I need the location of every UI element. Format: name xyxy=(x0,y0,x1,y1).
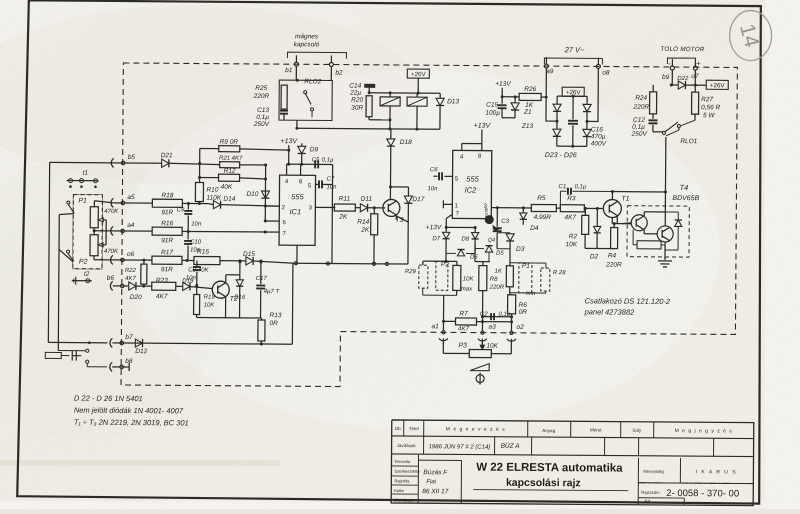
svg-text:Z1: Z1 xyxy=(523,109,532,116)
wire 13v ic2 xyxy=(481,130,483,144)
bracket tolo xyxy=(667,58,695,64)
svg-text:R23: R23 xyxy=(156,277,168,284)
svg-text:Csatlakozó DS 121.120-2: Csatlakozó DS 121.120-2 xyxy=(585,296,671,306)
wire b1 down xyxy=(295,66,297,80)
wire rl02 box bottom xyxy=(296,120,298,128)
svg-text:+26V: +26V xyxy=(411,71,427,78)
svg-text:1K: 1K xyxy=(495,269,503,275)
wire 13v down xyxy=(288,145,290,164)
svg-text:D8: D8 xyxy=(461,236,469,242)
svg-text:4K7: 4K7 xyxy=(458,325,470,332)
svg-text:4,99R: 4,99R xyxy=(534,214,552,221)
svg-text:R20: R20 xyxy=(351,97,363,104)
wire R25-C13 xyxy=(283,108,285,111)
svg-text:250V: 250V xyxy=(253,121,270,128)
pot P2 resistor xyxy=(90,235,98,256)
svg-text:D4: D4 xyxy=(530,225,539,232)
power +26V box top xyxy=(407,69,429,78)
title block rows xyxy=(392,436,754,439)
wire t1 to t4 xyxy=(611,218,613,224)
wire R12 ends xyxy=(200,177,219,179)
svg-text:Tervezte: Tervezte xyxy=(394,459,411,464)
svg-text:b1: b1 xyxy=(285,67,293,74)
svg-text:100µ: 100µ xyxy=(485,110,500,117)
wire c3 down xyxy=(496,241,498,249)
svg-text:P3: P3 xyxy=(458,342,467,349)
wire max bottom xyxy=(456,290,458,295)
wire c5 right down xyxy=(331,165,334,264)
wire b2 down xyxy=(330,66,332,80)
svg-text:86 XII 17: 86 XII 17 xyxy=(422,488,448,495)
resistor 10K max xyxy=(453,265,461,290)
bridge leg left D23 xyxy=(556,96,558,104)
svg-text:D7: D7 xyxy=(432,236,440,242)
svg-text:T₁ ÷ T₃ 2N 2219, 2N 3019, BC: T₁ ÷ T₃ 2N 2219, 2N 3019, BC 301 xyxy=(74,418,189,428)
svg-text:W 22 ELRESTA automatika: W 22 ELRESTA automatika xyxy=(476,462,623,475)
wire d16 top xyxy=(239,262,241,275)
svg-text:M e g j e g y z é s: M e g j e g y z é s xyxy=(675,428,733,434)
wire t3 bottom xyxy=(396,216,408,222)
wire a5 row xyxy=(113,202,152,204)
wire ic1 top rail xyxy=(287,163,333,165)
svg-text:Ellenőrizte: Ellenőrizte xyxy=(394,498,414,503)
resistor t4 internal xyxy=(637,241,661,249)
svg-text:220R: 220R xyxy=(489,285,505,291)
wire b5 row xyxy=(50,161,114,163)
svg-text:D9: D9 xyxy=(310,146,319,153)
svg-text:R11: R11 xyxy=(339,196,351,203)
svg-text:Db: Db xyxy=(395,426,401,431)
bracket 27V xyxy=(544,58,602,64)
svg-text:0R: 0R xyxy=(269,320,278,327)
wire pot tops xyxy=(93,201,95,207)
dashed boundary box xyxy=(121,63,737,389)
row2 right verticals xyxy=(530,455,532,461)
relay RL02 contact box xyxy=(380,97,400,106)
buzas cell xyxy=(460,460,462,503)
diode t4 xyxy=(677,212,679,220)
svg-text:1K: 1K xyxy=(525,102,534,109)
svg-text:R25: R25 xyxy=(255,85,267,92)
svg-text:0,1µ: 0,1µ xyxy=(574,184,586,190)
svg-text:D5: D5 xyxy=(496,251,504,257)
wire 26V rail xyxy=(369,92,440,95)
wire ladder right vertical xyxy=(264,165,266,221)
svg-text:Rajzolta: Rajzolta xyxy=(394,478,410,483)
wire 13V stub xyxy=(501,88,503,97)
svg-text:C9: C9 xyxy=(177,207,185,213)
svg-text:T1: T1 xyxy=(621,196,629,203)
pot P1 wiper xyxy=(98,218,103,222)
svg-text:R4: R4 xyxy=(608,253,617,260)
svg-text:P1: P1 xyxy=(522,263,530,270)
svg-text:RLO1: RLO1 xyxy=(680,138,697,145)
svg-text:4K7: 4K7 xyxy=(156,293,168,300)
power +26V box tolo xyxy=(695,84,706,86)
wire b7 row xyxy=(112,343,292,344)
svg-text:0,1µ: 0,1µ xyxy=(322,157,334,163)
ground t4 xyxy=(658,260,672,262)
svg-text:Tétel: Tétel xyxy=(409,426,419,431)
svg-text:C7: C7 xyxy=(327,176,335,182)
svg-text:P1: P1 xyxy=(78,198,87,205)
svg-text:D10: D10 xyxy=(246,191,258,198)
svg-text:R27: R27 xyxy=(701,96,713,103)
svg-text:10K: 10K xyxy=(204,303,216,309)
svg-text:555: 555 xyxy=(466,174,479,183)
wire r3 right xyxy=(584,207,603,209)
wire ladder left vertical xyxy=(199,149,201,183)
svg-text:D23 - D26: D23 - D26 xyxy=(545,152,577,159)
wire R10 bottom xyxy=(198,202,200,204)
svg-text:T4: T4 xyxy=(679,183,688,192)
svg-text:R15: R15 xyxy=(197,249,209,256)
wire T3 to D17 xyxy=(390,186,408,188)
svg-text:R18: R18 xyxy=(161,192,173,199)
svg-text:panel 4273882: panel 4273882 xyxy=(584,307,636,316)
wire t2 bottom rail xyxy=(197,317,262,319)
svg-text:t1: t1 xyxy=(83,170,89,177)
svg-text:D13: D13 xyxy=(447,98,459,105)
svg-text:2K: 2K xyxy=(360,227,370,234)
wire inner vertical xyxy=(58,215,60,250)
svg-text:27 V~: 27 V~ xyxy=(564,45,585,54)
svg-text:470K: 470K xyxy=(104,249,119,255)
svg-text:400V: 400V xyxy=(591,140,607,147)
wire t4 emitter down xyxy=(664,242,666,260)
svg-text:M e g n e v e z é s: M e g n e v e z é s xyxy=(446,426,506,432)
svg-text:a5: a5 xyxy=(127,194,135,201)
wire z1 bottom rail xyxy=(502,117,515,119)
resistor R8 xyxy=(479,266,487,291)
svg-text:D21: D21 xyxy=(161,152,173,159)
title block outer xyxy=(391,420,754,506)
svg-text:2K: 2K xyxy=(338,214,348,221)
svg-text:Z13: Z13 xyxy=(521,123,534,130)
svg-text:a9: a9 xyxy=(546,68,554,75)
svg-text:a4: a4 xyxy=(127,222,135,229)
svg-text:10K: 10K xyxy=(463,276,475,282)
wire o7 down xyxy=(694,70,696,85)
svg-text:min: min xyxy=(526,291,536,297)
svg-text:10n: 10n xyxy=(191,221,202,227)
title header cells xyxy=(403,420,405,436)
svg-text:10n: 10n xyxy=(326,184,337,190)
svg-text:91R: 91R xyxy=(161,209,173,216)
svg-text:R8: R8 xyxy=(490,277,498,283)
theta probe xyxy=(479,373,481,385)
svg-text:A4: A4 xyxy=(644,499,650,505)
pot box P1P2 dashed xyxy=(73,195,103,269)
switch bottom left xyxy=(45,352,61,358)
svg-text:R7: R7 xyxy=(459,310,468,317)
relay RL02 coil box xyxy=(279,80,332,120)
switch arm 1 xyxy=(67,201,70,204)
svg-text:R22: R22 xyxy=(125,268,137,274)
svg-text:C17: C17 xyxy=(256,276,268,282)
svg-text:t2: t2 xyxy=(84,271,90,278)
pot P3 wiper xyxy=(481,339,483,346)
ramp wedge xyxy=(470,364,489,371)
svg-text:D20: D20 xyxy=(130,294,142,301)
svg-text:1986 JÚN 97 # 2 (C14): 1986 JÚN 97 # 2 (C14) xyxy=(429,443,491,450)
pin 1 xyxy=(296,245,298,263)
svg-text:+13V: +13V xyxy=(426,224,442,231)
svg-text:+13V: +13V xyxy=(495,81,511,88)
svg-text:22µ: 22µ xyxy=(349,90,361,97)
rajzszam cell xyxy=(638,482,753,485)
relay RL01 contact box xyxy=(407,97,427,106)
wire R21 right xyxy=(240,164,266,166)
svg-text:P2: P2 xyxy=(79,259,88,266)
wire verticals to terminals xyxy=(442,321,444,330)
svg-text:BDV65B: BDV65B xyxy=(672,195,699,202)
svg-text:BÚZ A: BÚZ A xyxy=(501,441,520,450)
svg-text:R13: R13 xyxy=(270,312,282,319)
pot P1 resistor xyxy=(90,207,98,228)
wire r5-r3 xyxy=(556,207,560,209)
wire p1 bottom xyxy=(509,287,511,295)
svg-text:220R: 220R xyxy=(605,262,622,269)
pot P2 wiper xyxy=(98,243,103,247)
svg-text:C12: C12 xyxy=(633,117,645,124)
svg-text:R6: R6 xyxy=(519,302,528,309)
svg-text:Súly: Súly xyxy=(632,428,642,433)
svg-text:b5: b5 xyxy=(128,154,136,161)
wire R26 right xyxy=(541,96,546,98)
bridge leg right D25 xyxy=(586,96,588,104)
svg-text:C3: C3 xyxy=(501,219,509,225)
svg-text:0,56 R: 0,56 R xyxy=(701,104,721,111)
svg-text:C16: C16 xyxy=(591,126,603,133)
wire T2 emitter xyxy=(225,297,227,318)
svg-text:R3: R3 xyxy=(567,195,576,202)
transistor T1 xyxy=(603,199,621,217)
svg-text:220R: 220R xyxy=(633,104,650,111)
wire T3 emitter down xyxy=(395,215,397,220)
row2 cells xyxy=(423,436,425,454)
wire t4 internals xyxy=(622,223,631,224)
wire pin7 drop xyxy=(264,231,266,233)
svg-text:Kelte: Kelte xyxy=(394,488,404,493)
svg-text:R21 4K7: R21 4K7 xyxy=(219,156,243,162)
svg-text:R14: R14 xyxy=(357,219,369,226)
wire 13v row xyxy=(446,226,475,228)
transistor T3 xyxy=(383,199,400,216)
svg-text:Méret: Méret xyxy=(590,427,602,432)
pencil mark 14 xyxy=(729,10,771,60)
svg-text:555: 555 xyxy=(291,192,304,201)
wire ic1 bottom rail xyxy=(294,262,408,265)
svg-text:IC1: IC1 xyxy=(289,207,301,216)
svg-text:mágnes: mágnes xyxy=(295,33,319,40)
svg-text:D2: D2 xyxy=(590,253,599,260)
svg-text:D18: D18 xyxy=(400,139,412,146)
svg-text:+26V: +26V xyxy=(710,82,726,89)
wire r8 bottom xyxy=(482,291,484,317)
svg-text:Javítások: Javítások xyxy=(397,443,417,448)
svg-text:10K: 10K xyxy=(565,241,577,248)
svg-text:R 28: R 28 xyxy=(553,270,566,276)
svg-text:91R: 91R xyxy=(161,266,173,273)
wire bridge top xyxy=(557,95,587,97)
transistor box T4 dashed xyxy=(627,206,689,257)
svg-text:+13V: +13V xyxy=(474,123,492,130)
svg-text:4K7: 4K7 xyxy=(125,276,136,282)
svg-text:TOLÓ MOTOR: TOLÓ MOTOR xyxy=(660,44,704,53)
svg-text:D11: D11 xyxy=(361,196,373,203)
svg-text:C6: C6 xyxy=(430,167,438,173)
svg-text:a1: a1 xyxy=(431,323,439,330)
wire cluster down xyxy=(445,253,447,261)
svg-text:10n: 10n xyxy=(427,186,438,192)
wire 26V down xyxy=(417,78,419,93)
switch arm 2 xyxy=(66,250,69,253)
svg-text:30R: 30R xyxy=(351,105,363,112)
wire left outer vertical xyxy=(48,162,49,342)
svg-text:D17: D17 xyxy=(412,196,424,203)
svg-text:6: 6 xyxy=(485,208,488,214)
svg-text:250V: 250V xyxy=(631,131,648,138)
svg-text:Anyag: Anyag xyxy=(542,428,555,433)
svg-text:b9: b9 xyxy=(662,74,670,81)
svg-text:Nem jelölt diódák 1N 4001- 4: Nem jelölt diódák 1N 4001- 4007 xyxy=(74,406,184,416)
svg-text:R9 0R: R9 0R xyxy=(220,139,239,146)
wire lower rail y129 xyxy=(297,128,440,129)
wire p1 top xyxy=(509,263,511,266)
svg-text:R24: R24 xyxy=(635,95,647,102)
wire pot tops xyxy=(423,260,457,262)
wire bridge bottom xyxy=(557,145,587,147)
svg-text:R29: R29 xyxy=(405,269,417,275)
svg-text:b6: b6 xyxy=(107,275,115,282)
svg-text:o2: o2 xyxy=(516,324,524,331)
svg-text:C14: C14 xyxy=(349,83,361,90)
svg-text:Rajzszám: Rajzszám xyxy=(641,490,660,495)
wire r7 left xyxy=(444,320,456,322)
terminal b8 stub xyxy=(112,366,129,368)
title text xyxy=(637,458,639,505)
svg-text:Búzás F: Búzás F xyxy=(423,469,448,476)
svg-text:C1,: C1, xyxy=(558,184,567,190)
svg-text:D12: D12 xyxy=(135,348,147,355)
transistor T4b xyxy=(657,226,673,242)
wire R20 bottom xyxy=(368,117,370,120)
svg-text:Mennyiség: Mennyiség xyxy=(643,469,664,474)
wire t1 top rail xyxy=(612,191,665,193)
wire bottom rail t1 xyxy=(585,247,614,249)
svg-text:o8: o8 xyxy=(602,69,610,76)
svg-text:D14: D14 xyxy=(223,196,235,203)
wire T1 emitter xyxy=(616,216,618,224)
svg-text:5 W: 5 W xyxy=(703,112,715,119)
svg-text:o6: o6 xyxy=(127,251,135,258)
mennyiseg cell xyxy=(638,482,753,485)
transistor Q4 blob xyxy=(485,215,494,224)
svg-text:R16: R16 xyxy=(161,220,173,227)
wire b7 left xyxy=(48,341,107,343)
big row left labels xyxy=(417,454,419,503)
svg-text:kapcsoló: kapcsoló xyxy=(294,41,320,48)
svg-text:+13V: +13V xyxy=(281,138,299,145)
svg-text:R19: R19 xyxy=(204,295,216,301)
power +26V box bridge xyxy=(562,87,584,96)
svg-text:0R: 0R xyxy=(519,309,528,316)
wire a4 row xyxy=(113,230,152,232)
wire o8 down xyxy=(587,68,598,121)
svg-text:D6: D6 xyxy=(470,255,478,261)
svg-text:Fiai: Fiai xyxy=(426,479,436,485)
svg-text:220R: 220R xyxy=(253,93,270,100)
switch RL02 contact xyxy=(304,91,307,94)
svg-text:10K: 10K xyxy=(486,343,498,350)
wire a9 down xyxy=(546,68,557,121)
svg-text:91R: 91R xyxy=(161,237,173,244)
svg-text:4K7: 4K7 xyxy=(564,214,576,221)
bracket magnes kapcsolo xyxy=(287,52,346,58)
svg-text:4µ7 T: 4µ7 T xyxy=(264,289,281,295)
svg-text:max: max xyxy=(461,286,473,292)
svg-text:b2: b2 xyxy=(335,70,343,77)
wire r7 right xyxy=(477,321,512,323)
op-amp IC2 555 xyxy=(452,150,491,218)
wire d5 to r8 xyxy=(483,261,490,263)
svg-text:D3: D3 xyxy=(516,246,525,253)
svg-text:IC2: IC2 xyxy=(465,185,478,194)
svg-text:Q4: Q4 xyxy=(488,238,495,244)
svg-text:40K: 40K xyxy=(221,184,233,191)
wire rl01 down to T-section xyxy=(664,137,666,192)
svg-text:470K: 470K xyxy=(104,209,119,215)
svg-text:R5: R5 xyxy=(537,195,546,202)
transistor T2 xyxy=(212,281,229,298)
wire o6 row xyxy=(113,259,152,261)
svg-text:D 22 - D 26 1N 5401: D 22 - D 26 1N 5401 xyxy=(74,394,143,404)
wire T2 collector xyxy=(225,275,227,283)
resistor P1 1K xyxy=(506,266,513,287)
svg-text:C13: C13 xyxy=(257,107,269,114)
svg-text:R17: R17 xyxy=(161,249,173,256)
svg-text:a3: a3 xyxy=(488,324,496,331)
svg-text:C15: C15 xyxy=(486,102,498,109)
wire T3 collector xyxy=(390,160,392,166)
svg-text:R2: R2 xyxy=(569,233,578,240)
op-amp IC1 555 xyxy=(279,175,316,245)
wire R9 ends xyxy=(200,148,219,150)
transistor T4a xyxy=(631,215,647,231)
svg-text:R10: R10 xyxy=(206,187,218,194)
svg-text:RLO2: RLO2 xyxy=(304,78,321,85)
svg-text:I K A R U S: I K A R U S xyxy=(696,469,738,475)
wire T1 top xyxy=(611,192,613,200)
svg-text:Szerkesztette: Szerkesztette xyxy=(394,469,420,474)
svg-text:kapcsolási rajz: kapcsolási rajz xyxy=(506,477,581,490)
svg-text:D15: D15 xyxy=(243,251,255,258)
svg-text:R26: R26 xyxy=(524,86,536,93)
svg-text:b7: b7 xyxy=(125,334,133,341)
